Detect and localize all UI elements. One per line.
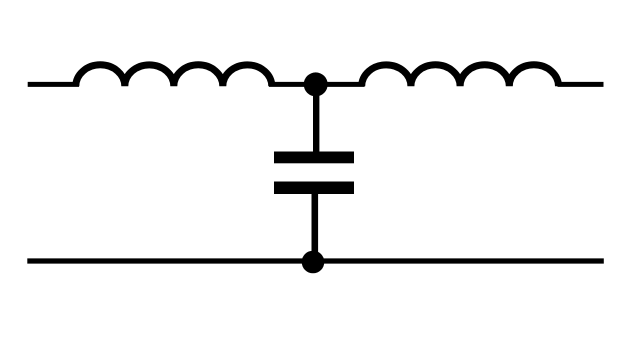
wire capacitor down to node B bbox=[311, 193, 318, 262]
node B junction dot (bottom) bbox=[302, 251, 325, 274]
wire node A to L2 bbox=[314, 82, 365, 87]
wire top-left input bbox=[28, 82, 79, 87]
inductor L2 bbox=[362, 65, 559, 87]
capacitor C1 top plate bbox=[274, 152, 354, 164]
wire bottom rail bbox=[27, 258, 604, 263]
node A junction dot (top) bbox=[304, 72, 328, 96]
wire top-right output bbox=[558, 82, 604, 87]
wire L1 to node A bbox=[269, 82, 316, 87]
inductor L1 bbox=[76, 65, 272, 87]
capacitor C1 bottom plate bbox=[274, 182, 354, 195]
wire node A down to capacitor bbox=[313, 84, 319, 152]
